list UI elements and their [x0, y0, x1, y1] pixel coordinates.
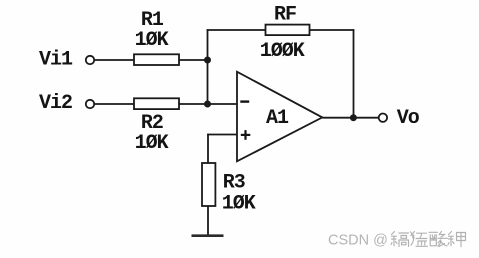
wire R1 to node A [179, 59, 208, 61]
svg-text:Vi1: Vi1 [39, 49, 73, 72]
svg-text:RF: RF [274, 4, 296, 27]
wire vertical node A to node B and up to feedback [207, 29, 209, 104]
wire vertical down to R3 [207, 134, 209, 163]
resistor R3 [202, 163, 215, 206]
wire Vi2 terminal to R2 [95, 103, 134, 105]
node Vo output terminal [379, 114, 387, 122]
resistor R1 [134, 54, 179, 65]
wire RF to right corner [310, 29, 355, 31]
svg-text:Vi2: Vi2 [39, 92, 72, 115]
wire op-amp output to terminal [322, 117, 378, 119]
wire top feedback left segment [207, 29, 266, 31]
op-amp A1 [237, 72, 322, 162]
resistor RF [266, 25, 310, 35]
wire feedback vertical down to output node [353, 29, 355, 118]
pin minus of op-amp [240, 100, 249, 102]
glyph 4 (metal radical + jia) [448, 232, 466, 247]
glyph 3 (you radical + suan) [429, 232, 448, 247]
wire Vi1 terminal to R1 [95, 59, 134, 61]
svg-text:1ØK: 1ØK [222, 193, 256, 216]
svg-text:R3: R3 [223, 172, 245, 195]
svg-text:Vo: Vo [397, 107, 420, 130]
ground [192, 234, 224, 237]
svg-text:1ØK: 1ØK [135, 29, 169, 52]
pin plus of op-amp [241, 130, 251, 140]
svg-text:A1: A1 [266, 107, 289, 130]
junction node B on Vi2 row [204, 101, 211, 108]
wire op-amp noninverting input horizontal [207, 134, 237, 136]
glyph 2 (dog radical + meng) [411, 232, 428, 247]
resistor R2 [134, 98, 179, 109]
svg-text:CSDN @: CSDN @ [328, 232, 388, 248]
node Vi1 input terminal [86, 56, 94, 64]
wire R3 to ground [207, 206, 209, 236]
svg-text:1ØK: 1ØK [135, 132, 169, 155]
junction node output [350, 114, 357, 121]
watermark CJK glyph approximations [391, 232, 466, 247]
wire R2 through node B to op-amp inverting input [179, 103, 237, 105]
glyph 1 (metal radical + ge) [391, 232, 409, 247]
node Vi2 input terminal [86, 100, 94, 108]
svg-text:1ØØK: 1ØØK [260, 40, 305, 63]
junction node A on Vi1 row [204, 57, 211, 64]
